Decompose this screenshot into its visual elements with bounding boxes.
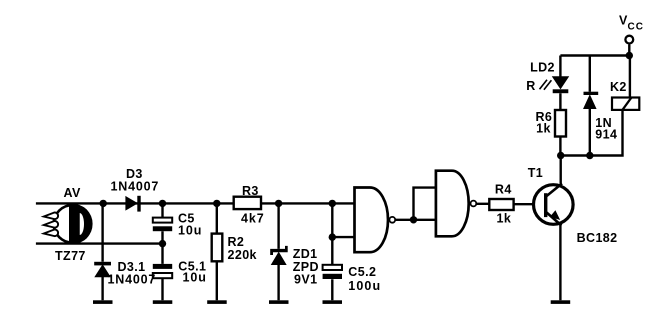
- svg-text:AV: AV: [64, 186, 81, 200]
- svg-text:10u: 10u: [178, 224, 202, 238]
- svg-text:1k: 1k: [536, 122, 551, 136]
- svg-text:K2: K2: [610, 80, 627, 94]
- svg-text:R4: R4: [495, 183, 512, 197]
- svg-text:4k7: 4k7: [241, 212, 265, 226]
- svg-text:T1: T1: [528, 166, 543, 180]
- svg-text:TZ77: TZ77: [55, 249, 86, 263]
- svg-text:BC182: BC182: [577, 231, 618, 245]
- svg-text:1N4007: 1N4007: [111, 180, 160, 194]
- svg-text:100u: 100u: [348, 279, 381, 293]
- svg-text:9V1: 9V1: [294, 273, 317, 287]
- svg-text:R2: R2: [228, 235, 245, 249]
- svg-text:220k: 220k: [228, 248, 257, 262]
- svg-text:1N4007: 1N4007: [108, 272, 157, 286]
- svg-text:LD2: LD2: [530, 60, 555, 74]
- svg-text:R3: R3: [242, 184, 259, 198]
- svg-text:914: 914: [595, 128, 617, 142]
- svg-text:CC: CC: [628, 21, 644, 32]
- svg-text:R: R: [526, 79, 535, 93]
- svg-text:10u: 10u: [183, 271, 207, 285]
- svg-text:ZPD: ZPD: [293, 260, 319, 274]
- svg-text:1k: 1k: [497, 211, 512, 225]
- svg-text:C5.2: C5.2: [348, 265, 376, 279]
